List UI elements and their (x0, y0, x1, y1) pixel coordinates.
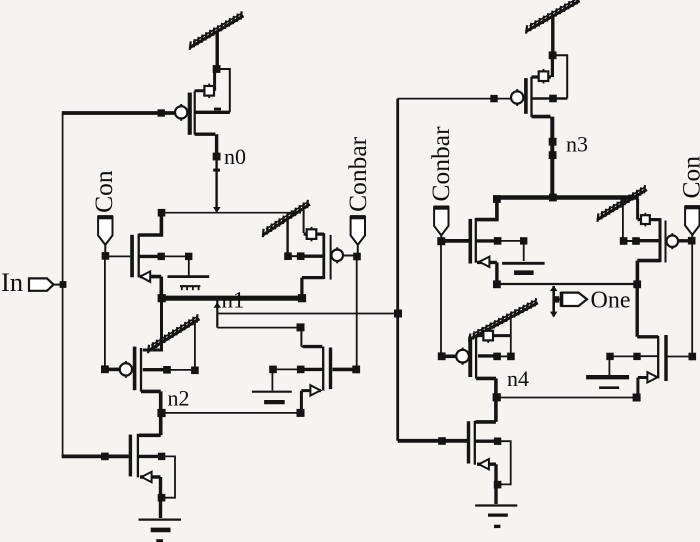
svg-text:n3: n3 (566, 132, 588, 157)
bulk contact square on M10 source (487, 328, 489, 343)
wire One stub (552, 286, 555, 317)
wire M11 gate (668, 356, 691, 358)
transistor M3 PMOS row2-right: bulk lead (301, 255, 323, 258)
junction VDD/M1 (213, 65, 221, 73)
port In (29, 278, 54, 290)
svg-text:In: In (1, 267, 23, 297)
junction Conbar (353, 253, 361, 261)
wire Conbar to M8 gate (441, 239, 468, 243)
solder arrow One stub top (550, 286, 558, 292)
transistor M7 PMOS top-right: source lead (532, 56, 553, 77)
power symbol VDD slash S4 (top right) (526, 0, 580, 34)
junction n1 rail right end (298, 294, 306, 302)
bulk contact square on M3 source (311, 227, 313, 242)
junction M9 bulk far (620, 237, 628, 245)
wire n0 down to row rail (215, 159, 217, 212)
wire In rail to M6 gate (62, 454, 129, 458)
wire Con rail down to M4 gate (104, 258, 106, 367)
junction VDD/M7 (549, 51, 557, 59)
node n1 stub down (216, 301, 218, 328)
wire M10 bulk thin (497, 355, 511, 357)
junction Conbar right (437, 237, 445, 245)
junction M11 bulk near (633, 353, 640, 360)
transistor M2 NMOS row2-left: gate bar and channel (130, 235, 134, 277)
junction n4 line end (633, 394, 641, 402)
analog ground symbol (hatched) row2-left (168, 275, 210, 278)
transistor M2 NMOS row2-left: bulk lead (139, 255, 163, 258)
wire VDD to M7 source junction (551, 16, 554, 53)
junction Con right (688, 237, 696, 245)
power symbol VDD slash S6 (row3 left) (469, 298, 538, 342)
wire row2 top rail (right half) (497, 195, 639, 199)
transistor M4 PMOS row3-left: gate bar, channel, bubble (133, 347, 137, 391)
transistor M6 NMOS row4-left: gate bar and channel (129, 435, 132, 477)
junction n4 rail left end (493, 280, 501, 288)
junction on M7 gate wire (490, 95, 497, 102)
wire M5 gate (333, 368, 355, 372)
junction on M2 bulk wire (185, 253, 192, 260)
junction M6 bulk pin (158, 453, 165, 460)
wire slash S5 to M9 source (636, 199, 639, 220)
wire slash S2 to M3 source (303, 209, 305, 233)
transistor M10 PMOS row3-left: bulk lead (478, 354, 497, 357)
junction n3 a (549, 138, 557, 146)
transistor M4 PMOS row3-left: drain lead to n2 (141, 391, 161, 411)
transistor M6 NMOS row4-left: source lead and arrow (140, 477, 161, 518)
junction rail / M8 drain (493, 195, 501, 203)
transistor M12 NMOS row4-right: bulk lead (475, 440, 499, 443)
port Con (left) (98, 217, 112, 245)
junction M2 bulk pin (158, 253, 165, 260)
wire n2 line to M5 source (162, 412, 301, 414)
ground symbol bottom-right (three bar) (475, 504, 517, 506)
node n4 rail (497, 283, 637, 285)
junction M4 bulk near (163, 366, 171, 374)
wire M9 gate to Con (678, 239, 691, 242)
transistor M3 PMOS row2-right: drain lead to n1 (302, 278, 324, 296)
junction M9 bulk near (632, 237, 640, 245)
wire M7 bulk tie loop (555, 55, 567, 98)
transistor M9 PMOS row2-right: drain lead to n4 (637, 261, 660, 282)
transistor M11 NMOS row3-right: bulk lead (637, 355, 658, 357)
node n2 junction (157, 409, 165, 417)
wire Conbar rail down to M10 gate (440, 243, 442, 354)
power symbol VDD slash S3 (row3 left) (148, 314, 200, 353)
wire VDD to M1 source junction (215, 31, 218, 66)
junction In (60, 281, 67, 288)
solder arrow One stub bottom (550, 312, 558, 318)
wire n4 line to M11 source (497, 397, 637, 399)
junction M10 bulk near (493, 353, 501, 361)
wire M12 bulk tie loop to source (499, 441, 511, 484)
svg-text:n1: n1 (222, 288, 245, 313)
junction Con / M4 gate (101, 365, 109, 373)
transistor M9 PMOS row2-right: bulk lead (636, 239, 660, 242)
junction M3 bulk far (284, 252, 292, 260)
wire Con port to junction (691, 235, 693, 238)
wire M4 gate (107, 368, 120, 372)
junction Conbar / M5 gate (352, 366, 360, 374)
wire M6 bulk tie loop to source (163, 456, 175, 497)
junction M12 source/bulk (494, 481, 502, 489)
wire row2 top rail (left half) (162, 212, 302, 214)
transistor M2 NMOS row2-left: source lead and arrow (140, 277, 161, 296)
junction n1 rail left end (158, 294, 166, 302)
wire M9 bulk thin (624, 240, 633, 242)
transistor M8 NMOS row2-left: bulk lead (476, 239, 499, 242)
ground symbol bottom-left (three bar) (139, 518, 182, 520)
wire Conbar port to junction (440, 236, 442, 239)
transistor M7 PMOS top-right: bulk lead (532, 97, 568, 100)
port One (562, 293, 588, 306)
transistor M12 NMOS row4-right: gate bar and channel (467, 421, 470, 463)
junction n3 b (549, 151, 557, 159)
transistor M2 NMOS row2-left: drain lead (139, 213, 161, 235)
junction rail / M2 drain (158, 209, 166, 217)
transistor M12 NMOS row4-right: drain lead to n4 (476, 399, 496, 422)
wire slash S3 to M4 bulk (194, 322, 196, 369)
transistor M12 NMOS row4-right: source lead and arrow (477, 464, 496, 504)
solder arrow n0 wire onto rail (213, 207, 221, 213)
bulk contact square on M9 source (644, 213, 646, 227)
transistor M7 PMOS top-right: gate bar, channel, bubble (524, 78, 528, 114)
wire Conbar rail down to M5 gate (356, 258, 358, 367)
transistor M10 PMOS row3-left: source lead (478, 334, 511, 337)
power symbol VDD slash S2 (row2 right) (263, 200, 310, 237)
transistor M1 PMOS top-left: source lead (195, 70, 215, 91)
node n0 junction (213, 153, 221, 161)
transistor M5 NMOS row3-right: gate bar and channel (329, 348, 332, 390)
junction M6 source/bulk (158, 494, 166, 502)
junction M3 bulk near (297, 252, 305, 260)
bulk contact square on M1 source (208, 84, 210, 99)
wire In rail vertical (62, 114, 64, 456)
port Conbar (left) (351, 217, 365, 245)
wire cross-couple vertical (n1 to M7 gate / M12 gate) (396, 99, 399, 441)
junction M8 bulk pin (494, 237, 502, 245)
wire M2 bulk to analog ground (164, 256, 189, 275)
svg-text:n2: n2 (168, 386, 190, 411)
solder arrow n1 stub (214, 302, 222, 308)
transistor M1 PMOS top-left: gate bar, channel, bubble (188, 93, 192, 135)
junction on M6 gate wire (101, 453, 109, 461)
svg-text:Conbar: Conbar (343, 136, 372, 212)
port Conbar (right) (434, 207, 448, 235)
transistor M1 PMOS top-left: bulk lead (195, 111, 230, 114)
junction rail / n3 (549, 194, 557, 202)
transistor M8 NMOS row2-left: drain lead (476, 199, 497, 220)
wire slash S2 to M3 bulk (286, 219, 288, 254)
node n1 rail (162, 296, 302, 301)
port Con (right) (685, 207, 699, 235)
junction on M7 bulk lead (549, 95, 557, 103)
transistor M5 NMOS row3-right: bulk lead (302, 368, 323, 371)
wire slash S5 to M9 bulk (622, 201, 624, 239)
transistor M8 NMOS row2-left: gate bar and channel (469, 219, 473, 264)
wire M10 gate (444, 354, 457, 358)
wire n3 vertical (550, 117, 554, 196)
svg-text:n4: n4 (507, 366, 529, 391)
junction One (553, 296, 559, 302)
junction line B end (297, 323, 305, 331)
wire n4 rail down to M11 drain (637, 284, 658, 337)
wire M7 gate to cross-couple (398, 98, 511, 100)
junction on M1 gate wire (158, 109, 165, 116)
wire n1 to M5 drain (line B) (217, 327, 300, 329)
wire Con to M2 gate (105, 255, 130, 257)
transistor M4 PMOS row3-left: source lead to n1 (143, 301, 163, 351)
transistor M6 NMOS row4-left: drain lead to n2 (139, 414, 161, 435)
wire M3 bulk thin segment (288, 255, 300, 257)
junction on M8 bulk wire (520, 237, 527, 244)
wire Con port to junction (104, 245, 106, 253)
junction M4 bulk far (191, 367, 199, 375)
svg-text:Con: Con (89, 170, 118, 213)
junction M11 bulk far (606, 353, 613, 360)
junction M10 bulk far (507, 353, 515, 361)
transistor M3 PMOS row2-right: gate bar, channel, bubble (330, 235, 332, 280)
wire M1 bulk tie loop (219, 69, 230, 112)
svg-text:Conbar: Conbar (426, 126, 455, 202)
ground symbol row2-right (two bar) (502, 262, 544, 265)
transistor M9 PMOS row2-right: gate bar, channel, bubble (665, 221, 667, 263)
wire Conbar port to junction (357, 245, 359, 253)
transistor M11 NMOS row3-right: source lead and arrow (638, 378, 647, 397)
wire M11 bulk thin to ground (609, 356, 637, 375)
wire M4 bulk thin (167, 369, 195, 371)
transistor M7 PMOS top-right: drain lead to n3 (532, 115, 551, 119)
transistor M3 PMOS row2-right: source lead (304, 233, 324, 236)
junction Con (102, 252, 110, 260)
wire slash S6 to M10 bulk (510, 319, 512, 355)
wire In to M1 gate (62, 111, 175, 115)
transistor M4 PMOS row3-left: bulk lead (143, 368, 167, 371)
transistor M10 PMOS row3-left: drain lead to n4 node (476, 378, 496, 395)
junction M12 bulk pin (494, 438, 501, 445)
power symbol VDD slash S1 (top left) (190, 11, 244, 50)
junction M5 bulk near (297, 366, 305, 374)
wire M5 bulk thin to ground (272, 369, 300, 390)
junction on M12 gate wire (438, 437, 446, 445)
junction Con / M11 gate (689, 353, 697, 361)
transistor M11 NMOS row3-right: gate bar and channel (664, 335, 667, 381)
wire In port to rail (54, 284, 61, 286)
transistor M6 NMOS row4-left: bulk lead (138, 455, 163, 458)
wire M8 bulk to ground (499, 241, 524, 261)
junction M5 bulk far (269, 366, 277, 374)
junction n4 rail right end (633, 280, 641, 288)
power symbol VDD slash S5 (row2 right) (597, 185, 647, 222)
svg-text:One: One (591, 288, 631, 314)
transistor M8 NMOS row2-left: source lead and arrow (477, 262, 497, 282)
wire cross-couple n1 to right half (line A) (217, 313, 398, 315)
svg-text:n0: n0 (224, 144, 246, 169)
wire Con rail down to M11 gate (691, 243, 693, 354)
junction Conbar / M10 gate (438, 352, 446, 360)
wire M1 drain to node n0 (195, 134, 217, 154)
ground symbol row3-left (two bar) (252, 391, 292, 393)
transistor M10 PMOS row3-left: gate bar, channel, bubble (468, 337, 472, 377)
wire to M5 drain (301, 329, 322, 347)
bulk contact square on M7 source (543, 69, 545, 84)
wire One port (556, 298, 562, 300)
junction line A / cross-couple (394, 310, 402, 318)
wire M3 gate to Conbar (343, 255, 357, 257)
transistor M5 NMOS row3-right: source lead and arrow (301, 391, 321, 412)
transistor M9 PMOS row2-right: source lead (638, 218, 660, 221)
svg-text:Con: Con (677, 156, 700, 199)
junction n2 line end (297, 409, 305, 417)
wire cross-couple to M12 gate (398, 439, 467, 443)
node n4 junction (493, 393, 501, 401)
ground symbol row3-right (two bar) (586, 375, 629, 379)
